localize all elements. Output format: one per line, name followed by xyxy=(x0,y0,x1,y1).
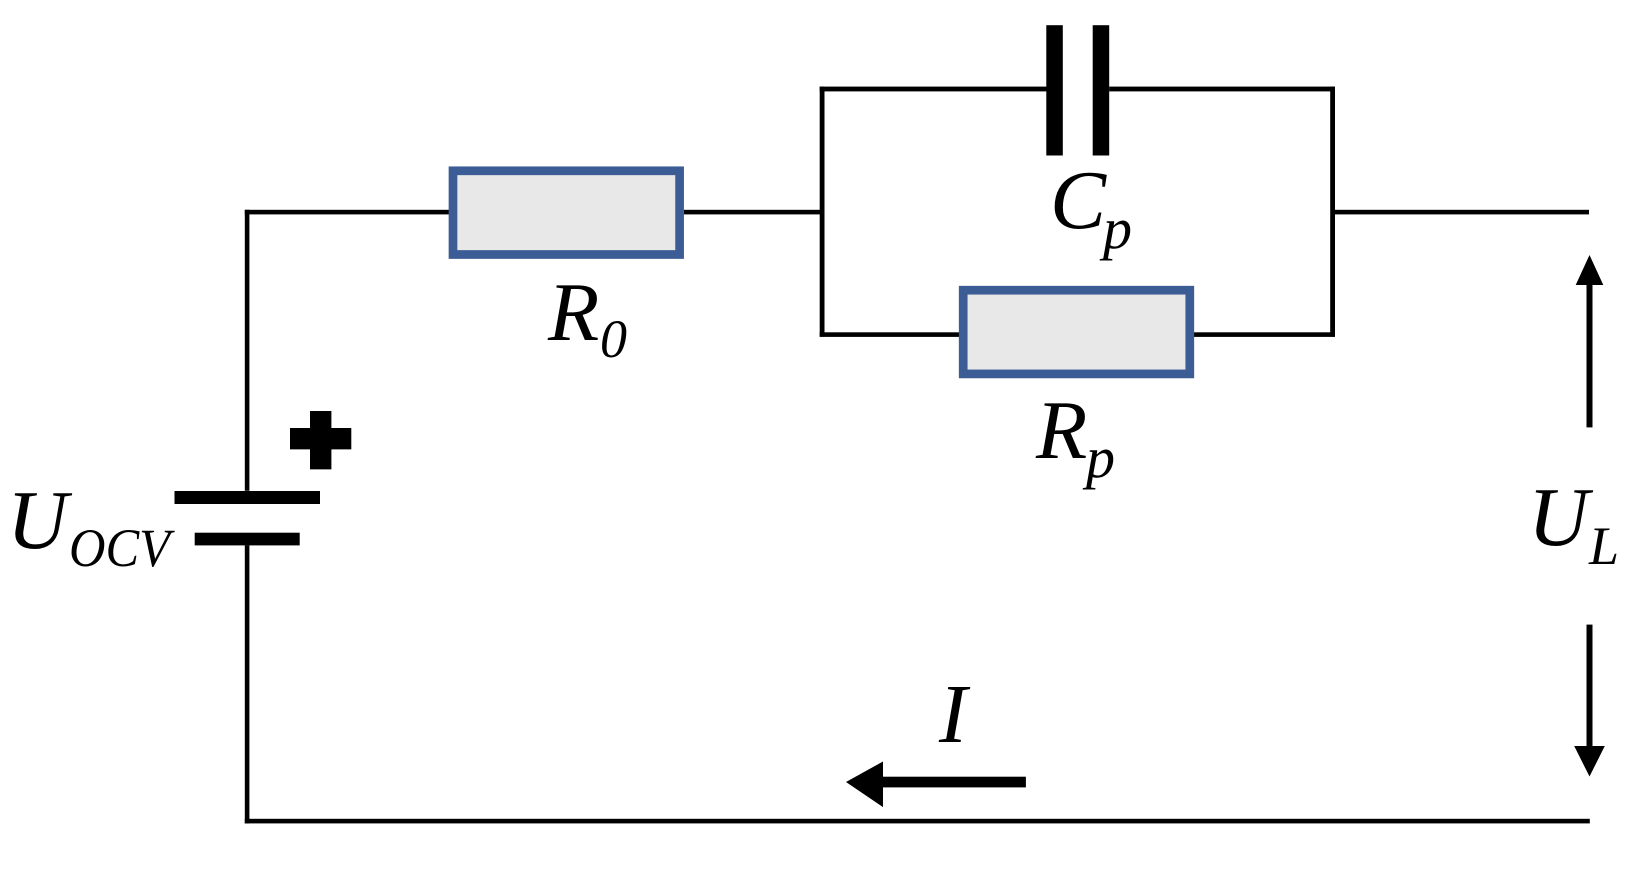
arrow: U_L down arrow xyxy=(1574,625,1605,777)
wire: left vertical from battery down to bottom-left corner xyxy=(245,545,250,823)
battery U_OCV negative plate (short bar) xyxy=(195,533,300,546)
svg-text:OCV: OCV xyxy=(69,518,176,578)
wire: R0 to parallel block xyxy=(684,210,824,215)
svg-text:R: R xyxy=(547,266,599,359)
svg-text:p: p xyxy=(1099,196,1132,261)
battery polarity plus sign xyxy=(290,411,351,469)
wire: parallel block right vertical edge xyxy=(1330,87,1335,337)
wire: parallel block top edge, left segment to capacitor xyxy=(820,87,1047,92)
resistor Rp body xyxy=(963,290,1190,374)
wire: parallel block bottom edge xyxy=(820,332,1335,337)
wire: left vertical from top node down to battery xyxy=(245,210,250,491)
svg-text:C: C xyxy=(1050,154,1107,247)
svg-text:p: p xyxy=(1082,425,1115,490)
arrow: U_L up arrow xyxy=(1576,255,1604,427)
wire: bottom horizontal xyxy=(245,819,1590,824)
svg-text:I: I xyxy=(938,668,971,761)
wire: parallel block left vertical edge xyxy=(820,87,825,337)
capacitor Cp right plate xyxy=(1093,25,1110,155)
svg-text:R: R xyxy=(1035,384,1087,477)
svg-text:L: L xyxy=(1588,516,1619,576)
arrow: current I (pointing left) xyxy=(846,762,1026,808)
svg-text:U: U xyxy=(1528,471,1594,564)
wire: parallel block to right output terminal xyxy=(1335,210,1589,215)
wire: parallel block top edge, capacitor to right corner xyxy=(1109,87,1335,92)
wire: top horizontal from left node to resistor R0 xyxy=(245,210,453,215)
resistor R0 body xyxy=(453,171,680,255)
battery U_OCV positive plate (long bar) xyxy=(175,491,321,504)
capacitor Cp left plate xyxy=(1046,25,1063,155)
svg-text:U: U xyxy=(7,474,73,567)
svg-text:0: 0 xyxy=(600,309,627,369)
